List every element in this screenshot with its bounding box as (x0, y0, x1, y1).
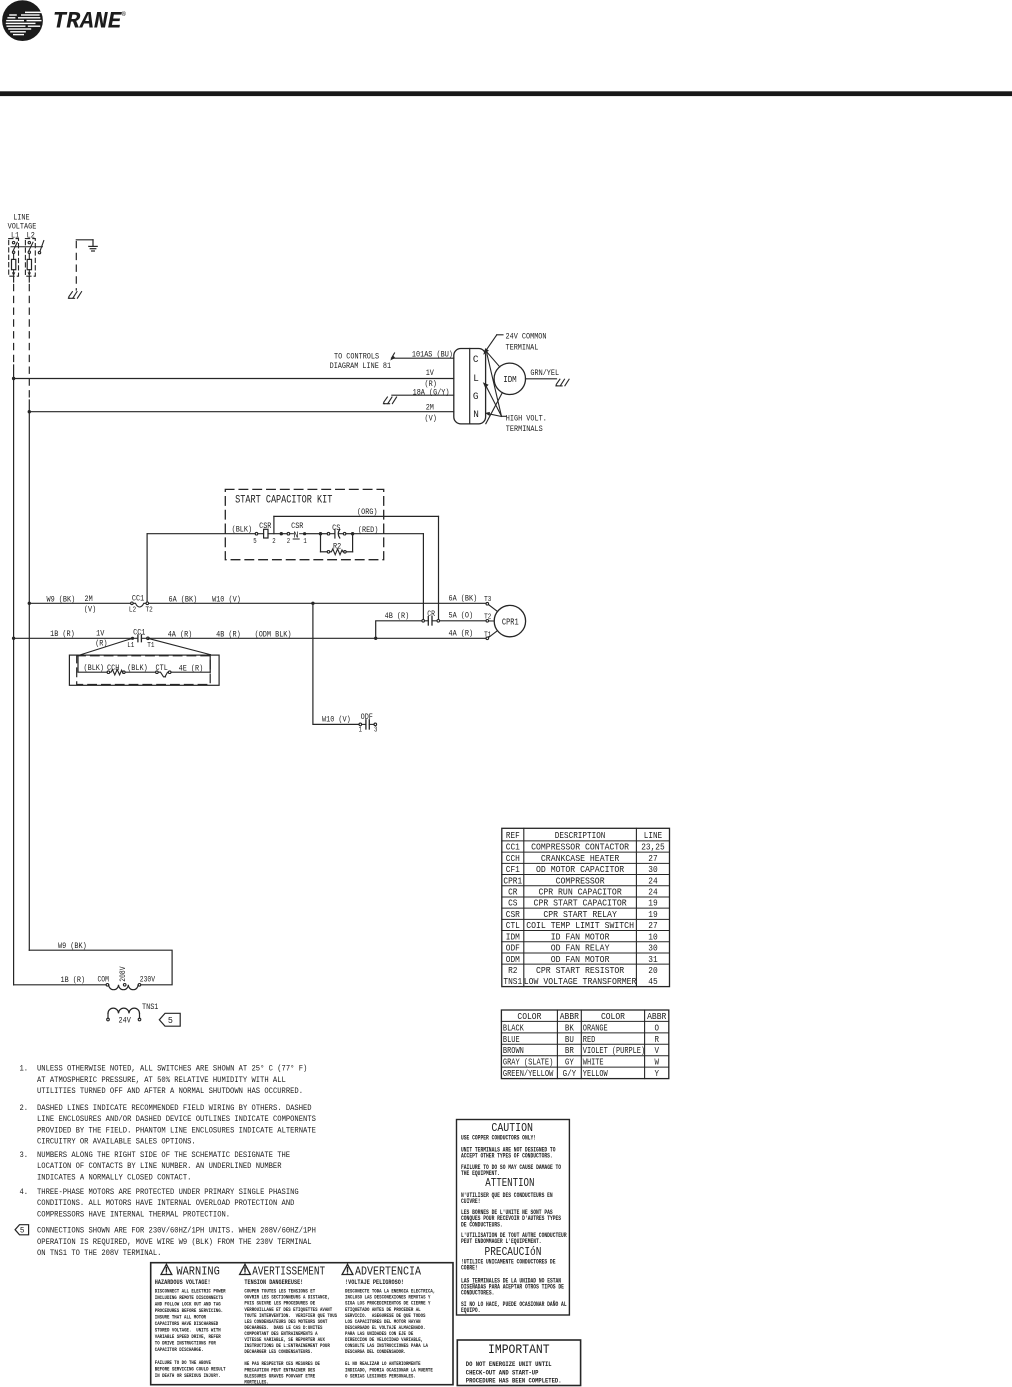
svg-text:6A (BK): 6A (BK) (449, 594, 478, 604)
disconnect switch pole L1 (12, 241, 17, 253)
important label box (457, 1340, 580, 1386)
wire W9 (BK) to transformer (29, 950, 172, 985)
label W10 (V) row1 (212, 595, 241, 605)
svg-text:BROWN: BROWN (503, 1045, 524, 1056)
svg-text:TERMINAL: TERMINAL (506, 343, 539, 353)
fuse L1 (12, 253, 16, 276)
svg-text:CR: CR (427, 610, 435, 619)
svg-text:(V): (V) (425, 414, 437, 424)
svg-text:2.: 2. (20, 1104, 29, 1113)
svg-text:PROVIDED BY THE FIELD. PHANTOM: PROVIDED BY THE FIELD. PHANTOM LINE ENCL… (37, 1126, 316, 1135)
wire CTL out (171, 671, 210, 673)
label CTL (156, 663, 168, 673)
earth ground wire (76, 240, 93, 290)
svg-text:CRANKCASE HEATER: CRANKCASE HEATER (541, 853, 620, 864)
transformer TNS1 secondary (107, 1008, 141, 1021)
capacitor CS (321, 529, 352, 538)
svg-text:CPR START RESISTOR: CPR START RESISTOR (536, 965, 625, 976)
svg-text:AVERTISSEMENT: AVERTISSEMENT (252, 1265, 325, 1279)
svg-text:(V): (V) (84, 605, 96, 615)
pin 1 contact (303, 538, 306, 546)
label 24V COMMON TERMINAL (506, 332, 547, 353)
wire kit to CC1 T2 (146, 534, 148, 602)
heater enclosure inner (dashed) (77, 656, 211, 685)
svg-text:ORANGE: ORANGE (583, 1022, 608, 1033)
terminal L2 label (27, 230, 35, 240)
svg-text:24: 24 (648, 887, 658, 898)
svg-text:BK: BK (565, 1022, 574, 1033)
label (R) (425, 379, 437, 389)
svg-text:CHECK-OUT AND START-UP: CHECK-OUT AND START-UP (466, 1369, 539, 1376)
wire 18A (G/Y) ground to block (392, 394, 454, 396)
svg-text:OD MOTOR CAPACITOR: OD MOTOR CAPACITOR (536, 864, 625, 875)
note 4 (20, 1188, 299, 1219)
svg-text:24: 24 (648, 875, 658, 886)
pin 5 (253, 538, 256, 546)
label 18A (G/Y) (413, 388, 450, 398)
svg-text:COMPRESSOR: COMPRESSOR (556, 875, 605, 886)
svg-text:OD FAN MOTOR: OD FAN MOTOR (551, 954, 610, 965)
svg-text:2: 2 (272, 538, 275, 546)
svg-text:IN DEATH OR SERIOUS INJURY.: IN DEATH OR SERIOUS INJURY. (155, 1373, 221, 1379)
wire L1 stub (13, 276, 15, 282)
pin G (473, 391, 479, 403)
svg-text:MORTELLES.: MORTELLES. (244, 1379, 268, 1385)
label (V) (425, 414, 437, 424)
svg-text:LINE: LINE (644, 830, 663, 841)
label CSR coil (259, 521, 271, 531)
svg-text:CAUTION: CAUTION (491, 1121, 533, 1135)
label CC1 row2 (133, 627, 145, 637)
wire into heater (78, 656, 107, 673)
wire (BLK) into kit (147, 533, 255, 535)
label (ORG) (357, 507, 378, 517)
svg-text:OD FAN RELAY: OD FAN RELAY (551, 943, 610, 954)
svg-text:O SERIAS LESIONES PERSONALES.: O SERIAS LESIONES PERSONALES. (345, 1373, 416, 1379)
contact CSR (287, 530, 319, 540)
svg-text:BR: BR (565, 1045, 574, 1056)
svg-text:W10 (V): W10 (V) (212, 595, 241, 605)
pointer 24V common terminal (483, 335, 503, 355)
pin C (473, 354, 479, 366)
fuse L2 (27, 253, 31, 276)
svg-text:6A (BK): 6A (BK) (169, 595, 198, 605)
svg-text:CTL: CTL (506, 920, 520, 931)
svg-text:ODF: ODF (506, 943, 520, 954)
label 1B (R) (50, 629, 75, 639)
label 1B (R) xfmr (61, 975, 86, 985)
svg-text:AT ATMOSPHERIC PRESSURE, AT 50: AT ATMOSPHERIC PRESSURE, AT 50% RELATIVE… (37, 1076, 286, 1085)
svg-text:5A (O): 5A (O) (449, 611, 474, 621)
svg-text:5: 5 (20, 1226, 25, 1236)
motor IDM (494, 363, 525, 394)
wire 1V (R) to terminal block (14, 378, 454, 380)
svg-text:BLUE: BLUE (503, 1034, 520, 1045)
label (RED) (358, 525, 379, 535)
leader CC1 L1 to heater box (78, 638, 133, 655)
svg-text:ABBR: ABBR (560, 1011, 580, 1022)
node 4B branch junction (374, 637, 377, 640)
svg-text:3: 3 (374, 727, 377, 735)
terminal T1 (486, 631, 498, 640)
svg-text:O: O (654, 1022, 659, 1033)
start capacitor kit enclosure (dashed) (225, 489, 383, 559)
svg-text:CPR START CAPACITOR: CPR START CAPACITOR (534, 898, 628, 909)
svg-text:4.: 4. (20, 1188, 29, 1197)
label (ODM BLK) (255, 629, 292, 639)
svg-text:BEFORE SERVICING COULD RESULT: BEFORE SERVICING COULD RESULT (155, 1367, 226, 1373)
svg-text:G: G (473, 391, 479, 403)
disconnect switch pole L2 (28, 241, 33, 253)
label 4B (R) branch (385, 611, 410, 621)
svg-text:45: 45 (648, 976, 657, 987)
wire GRN/YEL (526, 378, 557, 380)
svg-text:PROCEDURES BEFORE SERVICING.: PROCEDURES BEFORE SERVICING. (155, 1308, 223, 1314)
svg-text:CONDITIONS. ALL MOTORS HAVE IN: CONDITIONS. ALL MOTORS HAVE INTERNAL OVE… (37, 1199, 295, 1208)
svg-text:CPR1: CPR1 (503, 875, 522, 886)
svg-text:CF1: CF1 (506, 864, 521, 875)
svg-text:COBRE!: COBRE! (461, 1265, 478, 1272)
svg-text:1V: 1V (426, 368, 435, 378)
svg-text:REF: REF (506, 830, 520, 841)
svg-text:19: 19 (648, 898, 657, 909)
svg-text:WHITE: WHITE (583, 1057, 604, 1068)
svg-text:R: R (654, 1034, 659, 1045)
wire heater up to T1 leader (209, 655, 211, 673)
svg-text:DESCARGA DEL CONDENSADOR.: DESCARGA DEL CONDENSADOR. (345, 1349, 406, 1355)
svg-text:®: ® (122, 10, 126, 18)
svg-text:INDICATES A NORMALLY CLOSED CO: INDICATES A NORMALLY CLOSED CONTACT. (37, 1173, 191, 1182)
TRANE logo (2, 0, 126, 41)
label W10 (V) odf (322, 715, 351, 725)
wire W10 to ODF (313, 603, 359, 724)
svg-text:30: 30 (648, 943, 657, 954)
svg-text:IDM: IDM (503, 374, 517, 385)
svg-text:DO NOT ENERGIZE UNIT UNTIL: DO NOT ENERGIZE UNIT UNTIL (466, 1361, 552, 1368)
label (BLK) heater left (84, 663, 105, 673)
pointer high volt to L (483, 382, 502, 416)
svg-text:COIL TEMP LIMIT SWITCH: COIL TEMP LIMIT SWITCH (526, 920, 634, 931)
chassis ground symbol GRN/YEL (556, 379, 569, 386)
svg-text:IMPORTANT: IMPORTANT (488, 1343, 550, 1357)
note 2 (20, 1104, 317, 1147)
svg-text:GREEN/YELLOW: GREEN/YELLOW (503, 1068, 554, 1079)
label T1 pin (147, 642, 155, 650)
label (BLK) heater right (127, 663, 148, 673)
label CSR contact (291, 521, 303, 531)
svg-text:LOCATION OF CONTACTS BY LINE N: LOCATION OF CONTACTS BY LINE NUMBER. AN … (37, 1162, 282, 1171)
pin 1 odf (359, 727, 362, 735)
svg-text:CTL: CTL (156, 663, 168, 673)
svg-text:CSR: CSR (506, 909, 521, 920)
label CCH (107, 663, 119, 673)
switch CTL (156, 671, 171, 677)
header bar (0, 91, 1012, 96)
note 1 (20, 1065, 308, 1096)
heater CCH (107, 670, 125, 675)
chassis ground symbol 18A (383, 397, 396, 404)
node CS right (351, 532, 354, 535)
wire L1 dashed (field wiring) (13, 285, 15, 366)
note 3 (20, 1151, 291, 1182)
svg-text:27: 27 (648, 920, 657, 931)
wire L1 vertical (13, 365, 15, 985)
svg-text:1: 1 (303, 538, 306, 546)
svg-text:20: 20 (648, 965, 657, 976)
label 4B (R) row2 (216, 629, 241, 639)
wire L2 stub (28, 276, 30, 282)
svg-text:CS: CS (332, 523, 340, 533)
wire (ORG) out of kit (274, 515, 439, 517)
svg-text:1V: 1V (96, 629, 105, 639)
pointer high volt to N (485, 412, 506, 417)
svg-text:(BLK): (BLK) (127, 663, 148, 673)
leader CC1 T1 to heater box (148, 638, 210, 654)
svg-text:!VOLTAJE PELIGROSO!: !VOLTAJE PELIGROSO! (345, 1279, 404, 1286)
node ODF branch junction (311, 602, 314, 605)
svg-text:31: 31 (648, 954, 658, 965)
node 1B junction (12, 637, 15, 640)
svg-text:GRAY (SLATE): GRAY (SLATE) (503, 1057, 553, 1068)
svg-text:PROCEDURE HAS BEEN COMPLETED.: PROCEDURE HAS BEEN COMPLETED. (466, 1378, 562, 1385)
wire COLOR/ABBR table (501, 1010, 668, 1079)
svg-text:CSR: CSR (259, 521, 271, 531)
svg-text:Y: Y (654, 1068, 659, 1079)
svg-text:CONNECTIONS SHOWN ARE FOR 230V: CONNECTIONS SHOWN ARE FOR 230V/60HZ/1PH … (37, 1227, 316, 1236)
svg-text:DE CONDUCTEURS.: DE CONDUCTEURS. (461, 1221, 503, 1228)
pin N (473, 409, 479, 421)
label 2M row1 (85, 594, 93, 604)
label R2 (333, 542, 341, 552)
label 4E (R) (179, 663, 204, 673)
wire 1B/1V row (14, 637, 132, 639)
label TNS1 (142, 1002, 158, 1012)
terminal T2 (486, 620, 494, 623)
label (V) row1 (84, 605, 96, 615)
svg-text:101AS (BU): 101AS (BU) (412, 349, 453, 359)
label W9 (BK) (47, 595, 76, 605)
svg-text:24V: 24V (119, 1015, 132, 1025)
svg-text:4B (R): 4B (R) (385, 611, 410, 621)
svg-text:DECHARGER LES CONDENSATEURS.: DECHARGER LES CONDENSATEURS. (244, 1349, 312, 1355)
warning/avertissement/advertencia label box (151, 1263, 453, 1386)
svg-text:208V: 208V (120, 966, 128, 981)
svg-text:CSR: CSR (291, 521, 303, 531)
capacitor CR (422, 617, 440, 625)
svg-text:V: V (654, 1045, 659, 1056)
pin L (473, 373, 479, 385)
svg-text:HAZARDOUS VOLTAGE!: HAZARDOUS VOLTAGE! (155, 1279, 211, 1286)
svg-text:NUMBERS ALONG THE RIGHT SIDE O: NUMBERS ALONG THE RIGHT SIDE OF THE SCHE… (37, 1151, 290, 1160)
svg-text:LOW VOLTAGE TRANSFORMER: LOW VOLTAGE TRANSFORMER (524, 976, 637, 987)
svg-text:W9 (BK): W9 (BK) (47, 595, 76, 605)
svg-text:(BLK): (BLK) (84, 663, 105, 673)
svg-text:4A (R): 4A (R) (168, 629, 193, 639)
svg-text:USE COPPER CONDUCTORS ONLY!: USE COPPER CONDUCTORS ONLY! (461, 1134, 536, 1141)
svg-text:DASHED LINES INDICATE RECOMMEN: DASHED LINES INDICATE RECOMMENDED FIELD … (37, 1104, 312, 1113)
svg-text:W10 (V): W10 (V) (322, 715, 351, 725)
svg-text:TRANE: TRANE (53, 9, 123, 36)
wire 6A/W10 row1 (149, 602, 486, 604)
svg-text:DIAGRAM LINE 81: DIAGRAM LINE 81 (330, 361, 392, 371)
label 4A (R) at T1 (449, 629, 474, 639)
svg-text:(BLK): (BLK) (232, 525, 253, 535)
svg-text:COLOR: COLOR (517, 1011, 541, 1022)
terminal T3 (486, 602, 498, 611)
svg-text:COMPRESSORS HAVE INTERNAL THER: COMPRESSORS HAVE INTERNAL THERMAL PROTEC… (37, 1210, 230, 1219)
svg-text:T1: T1 (147, 642, 155, 650)
svg-text:THREE-PHASE MOTORS ARE PROTECT: THREE-PHASE MOTORS ARE PROTECTED UNDER P… (37, 1188, 299, 1197)
label ODF (361, 712, 373, 722)
svg-text:4A (R): 4A (R) (449, 629, 474, 639)
svg-text:INSURE THAT ALL MOTOR: INSURE THAT ALL MOTOR (155, 1315, 206, 1321)
wire 4B branch (376, 621, 422, 639)
svg-text:WARNING: WARNING (176, 1265, 219, 1279)
svg-text:RED: RED (583, 1034, 596, 1045)
svg-text:BLACK: BLACK (503, 1022, 524, 1033)
svg-text:24V COMMON: 24V COMMON (506, 332, 547, 342)
svg-text:CR: CR (508, 887, 518, 898)
disconnect enclosure L1 (dashed) (9, 239, 19, 277)
label CS (332, 523, 340, 533)
svg-text:G/Y: G/Y (563, 1068, 577, 1079)
svg-text:HIGH VOLT.: HIGH VOLT. (506, 413, 547, 423)
wire (ORG) riser (273, 516, 275, 533)
svg-text:TNS1: TNS1 (503, 976, 522, 987)
svg-text:1B (R): 1B (R) (50, 629, 75, 639)
svg-text:W: W (654, 1057, 659, 1068)
pin 3 odf (374, 727, 377, 735)
svg-text:TENSION DANGEREUSE!: TENSION DANGEREUSE! (244, 1279, 303, 1286)
svg-text:ON TNS1 TO THE 208V TERMINAL.: ON TNS1 TO THE 208V TERMINAL. (37, 1249, 161, 1258)
wire CR to T2 (440, 620, 486, 622)
node W9 junction (28, 602, 31, 605)
label W9 (BK) xfmr (58, 941, 87, 951)
svg-text:OPERATION IS REQUIRED, MOVE WI: OPERATION IS REQUIRED, MOVE WIRE W9 (BLK… (37, 1238, 312, 1247)
svg-text:CPR RUN CAPACITOR: CPR RUN CAPACITOR (538, 887, 622, 898)
label (BLK) (232, 525, 253, 535)
label L1 pin (127, 642, 135, 650)
svg-text:W9 (BK): W9 (BK) (58, 941, 87, 951)
svg-text:VIOLET (PURPLE): VIOLET (PURPLE) (583, 1045, 645, 1056)
pointer high volt from corner (486, 352, 501, 417)
contact ODF (359, 720, 377, 729)
svg-text:CCH: CCH (107, 663, 119, 673)
svg-text:CUIVRE!: CUIVRE! (461, 1198, 481, 1205)
label 5A (O) (449, 611, 474, 621)
svg-text:1B (R): 1B (R) (61, 975, 86, 985)
svg-text:ADVERTENCIA: ADVERTENCIA (355, 1265, 422, 1279)
label HIGH VOLT. TERMINALS (506, 413, 547, 434)
svg-text:4E (R): 4E (R) (179, 663, 204, 673)
svg-text:ODM: ODM (506, 954, 520, 965)
svg-text:27: 27 (648, 853, 657, 864)
svg-text:ID FAN MOTOR: ID FAN MOTOR (551, 931, 610, 942)
svg-text:ABBR: ABBR (647, 1011, 667, 1022)
wire 4A/4B row2 (149, 637, 486, 639)
svg-text:R2: R2 (508, 965, 517, 976)
motor CPR1 (494, 605, 525, 636)
svg-text:CIRCUITRY OR AVAILABLE SALES O: CIRCUITRY OR AVAILABLE SALES OPTIONS. (37, 1138, 196, 1147)
disconnect mechanical crossbar (11, 246, 43, 248)
svg-text:FAILURE TO DO THE ABOVE: FAILURE TO DO THE ABOVE (155, 1360, 211, 1366)
label GRN/YEL (530, 368, 559, 378)
contact CC1 L2-T2 (131, 602, 149, 607)
label 2M (426, 403, 434, 413)
LINE VOLTAGE label (8, 213, 37, 232)
label T2 pin (146, 607, 153, 615)
label 1V row2 (96, 629, 105, 639)
wire (RED) vertical (422, 534, 424, 620)
svg-text:COLOR: COLOR (601, 1011, 625, 1022)
IDM lead lower (486, 393, 503, 424)
svg-text:ODF: ODF (361, 712, 373, 722)
label 6A (BK) at T3 (449, 594, 478, 604)
svg-text:3.: 3. (20, 1151, 29, 1160)
caution/attention/precaucion label box (457, 1120, 570, 1316)
flag note 5 xfmr (159, 1013, 180, 1026)
node CS left (319, 532, 322, 535)
label COM (98, 977, 110, 985)
label T2 cpr (484, 614, 491, 622)
svg-text:2M: 2M (85, 594, 93, 604)
terminal L1 label (11, 230, 19, 240)
svg-text:STORED VOLTAGE. UNITS WITH: STORED VOLTAGE. UNITS WITH (155, 1328, 221, 1334)
node CSR junction (280, 532, 283, 535)
svg-text:START CAPACITOR KIT: START CAPACITOR KIT (235, 495, 332, 507)
svg-text:YELLOW: YELLOW (583, 1068, 608, 1079)
wire 1B (R) to transformer (14, 984, 107, 986)
svg-text:CC1: CC1 (133, 627, 145, 637)
svg-text:L2: L2 (129, 607, 136, 615)
label L2 pin (129, 607, 136, 615)
pin 2 coil (272, 538, 275, 546)
IDM lead upper (486, 351, 500, 367)
svg-text:CONDUCTORES.: CONDUCTORES. (461, 1290, 494, 1297)
svg-text:L: L (473, 373, 479, 385)
wire 2M (V) to terminal block (29, 411, 454, 413)
chassis ground symbol (service ground) (68, 292, 81, 299)
label TO CONTROLS DIAGRAM LINE 81 (330, 352, 392, 371)
svg-text:CS: CS (508, 898, 518, 909)
label (R) row2 (95, 639, 107, 649)
heater enclosure outer (solid) (69, 655, 219, 685)
label T1 cpr (484, 631, 492, 639)
label 4A (R) row2 (168, 629, 193, 639)
svg-text:1.: 1. (20, 1065, 29, 1074)
svg-text:UNLESS OTHERWISE NOTED, ALL SW: UNLESS OTHERWISE NOTED, ALL SWITCHES ARE… (37, 1065, 307, 1074)
relay coil CSR (255, 529, 287, 538)
wire (RED) out of kit (353, 533, 424, 535)
svg-text:IDM: IDM (506, 931, 520, 942)
svg-text:CC1: CC1 (132, 593, 144, 603)
svg-text:10: 10 (648, 931, 657, 942)
svg-text:4B (R): 4B (R) (216, 629, 241, 639)
svg-text:5: 5 (168, 1016, 173, 1026)
svg-text:30: 30 (648, 864, 657, 875)
svg-text:ACCEPT OTHER TYPES OF CONDUCTO: ACCEPT OTHER TYPES OF CONDUCTORS. (461, 1153, 553, 1160)
label CR (427, 610, 435, 619)
REF/DESCRIPTION/LINE legend table (502, 828, 670, 987)
wire L2 dashed (field wiring) (28, 285, 30, 401)
svg-text:T2: T2 (146, 607, 153, 615)
svg-text:18A (G/Y): 18A (G/Y) (413, 388, 450, 398)
svg-text:2M: 2M (426, 403, 434, 413)
svg-text:(ODM BLK): (ODM BLK) (255, 629, 292, 639)
svg-text:DESCRIPTION: DESCRIPTION (555, 830, 606, 841)
disconnect handle blade (38, 241, 44, 254)
label 101AS (BU) (412, 349, 453, 359)
